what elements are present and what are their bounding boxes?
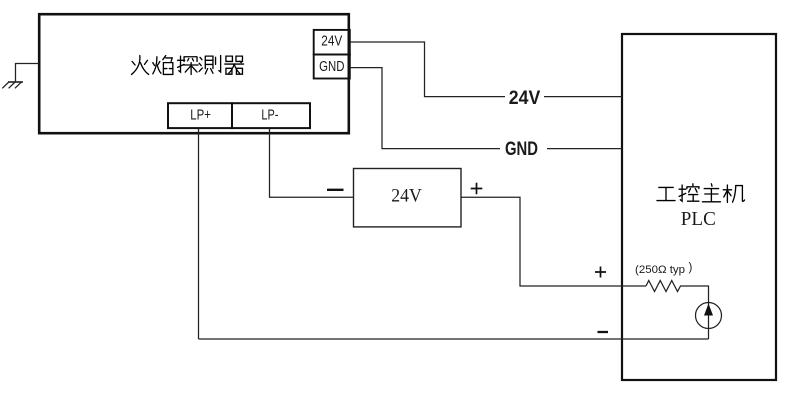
svg-text:(250Ω typ: (250Ω typ — [635, 264, 685, 276]
svg-text:GND: GND — [505, 139, 538, 160]
svg-text:LP+: LP+ — [190, 107, 211, 124]
svg-text:24V: 24V — [509, 88, 541, 109]
svg-text:): ) — [689, 262, 693, 274]
svg-text:GND: GND — [319, 59, 344, 75]
svg-text:LP-: LP- — [261, 107, 278, 124]
svg-text:24V: 24V — [321, 34, 342, 50]
svg-text:24V: 24V — [391, 187, 422, 207]
svg-text:PLC: PLC — [681, 209, 716, 230]
